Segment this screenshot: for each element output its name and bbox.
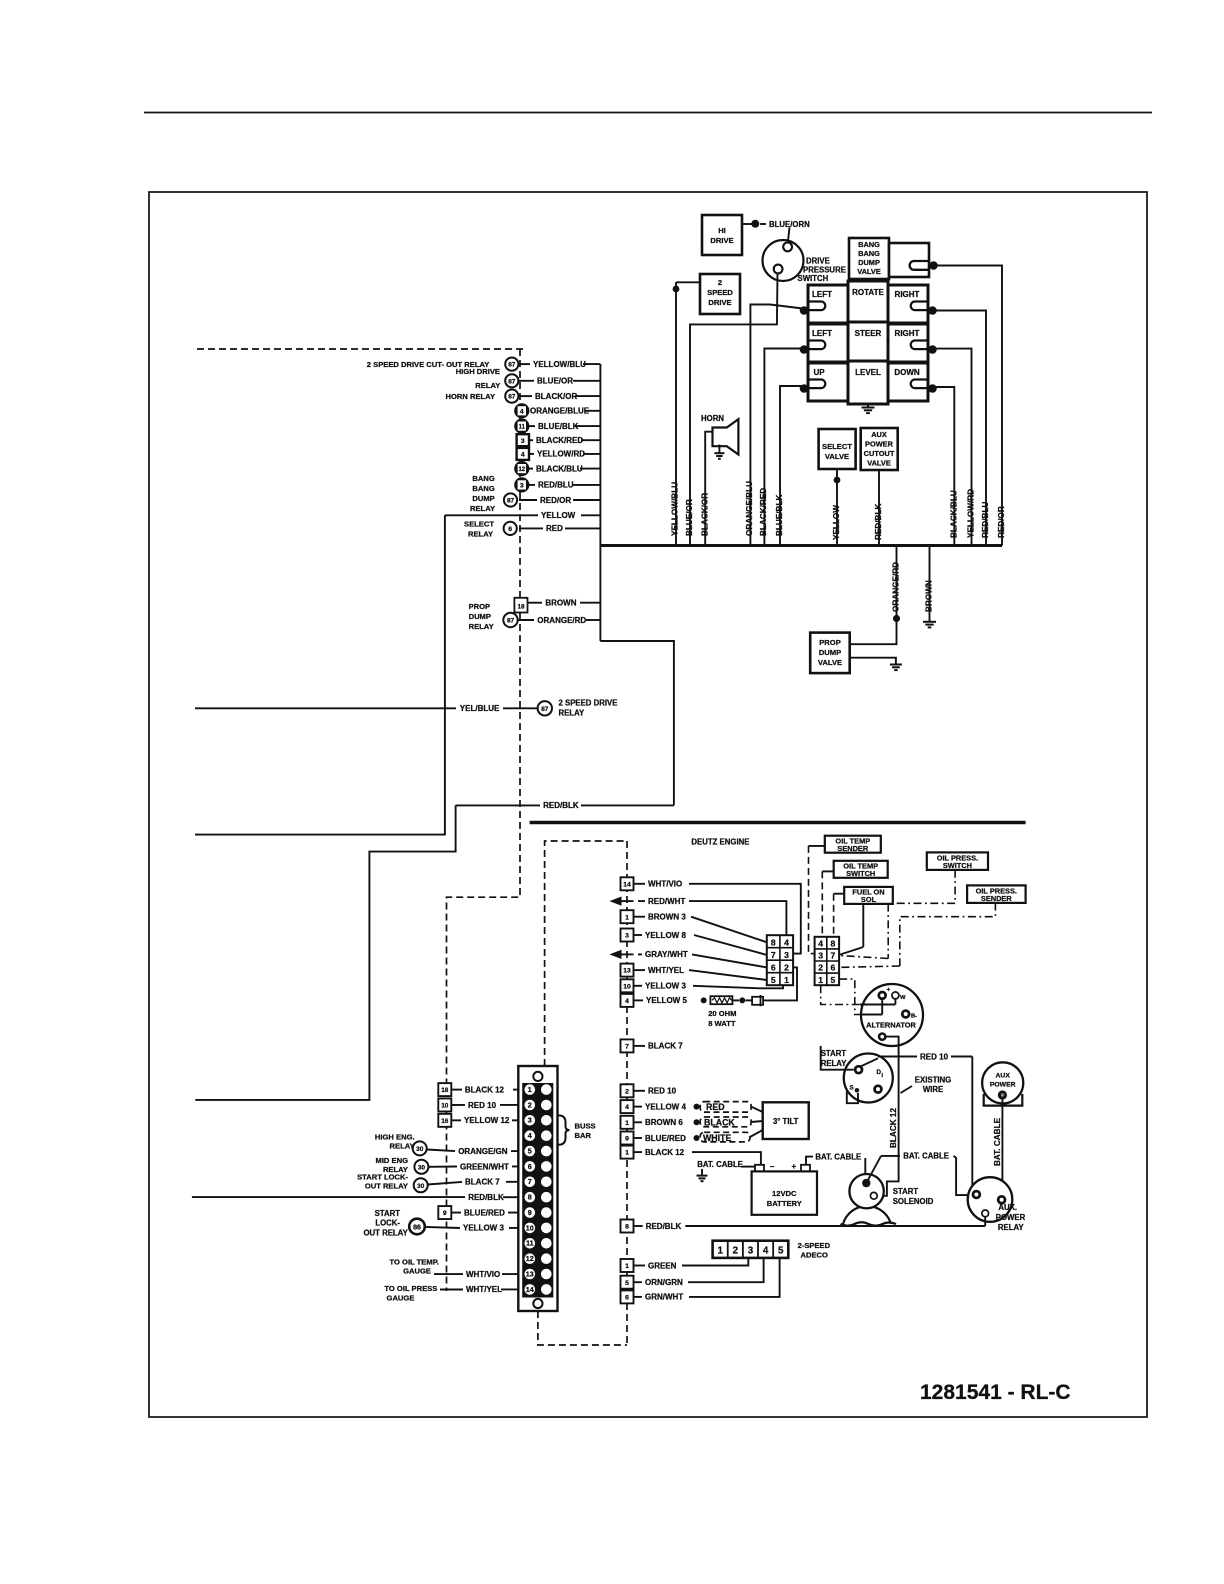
svg-text:3: 3 [521, 438, 525, 445]
drive pressure switch terminal bottom [774, 265, 783, 274]
valve box steer RIGHT [888, 324, 928, 362]
engine connector pin 5 ORN/GRN [621, 1276, 634, 1289]
aux power relay left terminal [972, 1190, 982, 1200]
svg-text:CUTOUT: CUTOUT [864, 449, 895, 458]
svg-text:11: 11 [519, 425, 526, 431]
node dot level down [928, 384, 937, 393]
svg-text:8: 8 [528, 1193, 532, 1202]
svg-text:2: 2 [818, 963, 823, 973]
connector 2-SPEED ADECO [713, 1241, 789, 1258]
trunk wire step to RED/BLK [600, 641, 674, 805]
ground under horn [714, 452, 724, 454]
svg-text:14: 14 [526, 1285, 534, 1294]
svg-text:2: 2 [784, 962, 789, 972]
svg-text:BANG: BANG [858, 240, 880, 249]
svg-text:5: 5 [771, 975, 776, 985]
separator bar [530, 821, 1026, 825]
svg-text:SENDER: SENDER [981, 894, 1012, 903]
svg-text:6: 6 [625, 1295, 629, 1302]
svg-text:BLACK 7: BLACK 7 [648, 1042, 683, 1051]
svg-text:YELLOW/BLU: YELLOW/BLU [671, 482, 680, 536]
svg-text:RELAY: RELAY [821, 1059, 848, 1068]
OIL TEMP SWITCH box [834, 861, 888, 878]
wire RED/BLK from cutout valve [878, 470, 880, 546]
dashed engine border right [626, 841, 628, 1345]
svg-text:RED/BLU: RED/BLU [538, 481, 574, 490]
svg-text:WHT/VIO: WHT/VIO [466, 1270, 500, 1279]
engine connector pin 1 BROWN 6 [621, 1116, 634, 1129]
svg-text:ADECO: ADECO [801, 1251, 829, 1260]
svg-text:5: 5 [831, 975, 836, 985]
dashed tag WHITE [700, 1132, 750, 1142]
svg-text:13: 13 [526, 1269, 534, 1278]
FUEL ON SOL box [844, 887, 893, 904]
svg-text:BLUE/RED: BLUE/RED [645, 1134, 686, 1143]
svg-text:18: 18 [441, 1087, 449, 1094]
wire ORANGE/RD drop [896, 546, 898, 619]
svg-text:ORANGE/BLU: ORANGE/BLU [745, 481, 754, 536]
svg-text:DRIVE: DRIVE [710, 236, 733, 245]
svg-text:4: 4 [818, 939, 823, 949]
svg-text:GRN/WHT: GRN/WHT [645, 1293, 683, 1302]
svg-text:1: 1 [625, 1120, 629, 1127]
label BLUE/ORN [760, 223, 766, 225]
wire steer right to YELLOW/RD [935, 349, 972, 546]
svg-text:RED/BLK: RED/BLK [543, 801, 579, 810]
node dot yellow5 right [739, 997, 745, 1003]
svg-text:WHITE: WHITE [703, 1133, 731, 1143]
wire solenoid diagonal to bat cable [866, 1156, 881, 1183]
svg-text:RELAY: RELAY [998, 1223, 1025, 1232]
PROP DUMP VALVE box [810, 633, 850, 674]
ground battery cable [701, 1169, 703, 1176]
node dot steer left [800, 345, 809, 354]
svg-text:BLACK 7: BLACK 7 [465, 1178, 500, 1187]
junction dot select valve [834, 477, 841, 484]
svg-text:SELECT: SELECT [464, 520, 494, 529]
node dot steer right [928, 345, 937, 354]
wire WHT/YEL to pin 14 [440, 1289, 463, 1291]
wire tag WHITE to tilt box [750, 1130, 763, 1137]
svg-text:RED: RED [706, 1102, 725, 1112]
valve box ROTATE [848, 281, 888, 324]
engine connector pin 3 YELLOW 8 [621, 929, 634, 942]
svg-text:RELAY: RELAY [475, 381, 500, 390]
svg-text:8: 8 [625, 1224, 629, 1231]
wire stepped left leg [195, 805, 455, 1100]
svg-text:BLACK 12: BLACK 12 [465, 1085, 505, 1094]
start solenoid top terminal [862, 1179, 870, 1187]
svg-text:G: G [1000, 1094, 1004, 1100]
wire YELLOW 12 to pin 3 [451, 1119, 461, 1121]
wire RED/BLK to aux relay [685, 1225, 985, 1227]
svg-text:1: 1 [625, 914, 629, 921]
svg-text:30: 30 [416, 1146, 424, 1153]
valve box LEVEL [848, 361, 888, 404]
svg-text:DUMP: DUMP [469, 612, 491, 621]
svg-text:LOCK-: LOCK- [375, 1218, 400, 1227]
svg-text:RED/BLK: RED/BLK [646, 1222, 682, 1231]
wire horn ground stub [718, 445, 720, 454]
svg-text:7: 7 [831, 951, 836, 961]
svg-text:14: 14 [623, 881, 631, 888]
SELECT VALVE box [819, 429, 856, 469]
wire GRN/WHT to adeco [689, 1258, 780, 1297]
AUX POWER CUTOUT VALVE box [861, 428, 898, 470]
svg-text:DUMP: DUMP [819, 648, 841, 657]
3 degree TILT box [763, 1102, 809, 1139]
dashed wire top horizontal [197, 348, 523, 350]
dashed engine border top [545, 841, 627, 1066]
wire ORANGE/BLU [750, 305, 807, 546]
wire bang bang valve to RED/OR [936, 266, 1002, 546]
wire GRAY/WHT diagonal [692, 954, 767, 967]
svg-text:12VDC: 12VDC [772, 1189, 797, 1198]
valve box level DOWN [888, 363, 928, 401]
engine connector pin 14 WHT/VIO [621, 877, 634, 890]
svg-text:5: 5 [778, 1245, 784, 1256]
svg-text:LEFT: LEFT [812, 329, 832, 338]
drive pressure switch circle [763, 240, 804, 281]
svg-text:4: 4 [520, 408, 524, 415]
valve box rotate LEFT [808, 285, 848, 323]
rotate right coil hairpin [911, 302, 928, 311]
wire ORANGE/GN to pin 5 [427, 1150, 455, 1152]
svg-text:BANG: BANG [472, 484, 494, 493]
svg-text:RED: RED [546, 524, 563, 533]
terminal 9 square [438, 1206, 451, 1219]
svg-text:S: S [850, 1085, 854, 1092]
main bus line [600, 544, 1002, 547]
drive pressure switch terminal top [783, 243, 792, 252]
svg-text:BLACK/OR: BLACK/OR [535, 392, 577, 401]
svg-text:10: 10 [623, 983, 631, 990]
wire tag BLACK to tilt box [751, 1121, 763, 1122]
wire BLACK/RED [764, 349, 808, 546]
OIL TEMP SENDER box [825, 836, 881, 853]
relay contact row BLACK/RED [519, 439, 533, 441]
wire ORANGE/RD to prop dump valve [850, 619, 897, 645]
svg-text:BLUE/OR: BLUE/OR [537, 377, 573, 386]
svg-text:RED 10: RED 10 [920, 1052, 949, 1061]
battery terminal minus [755, 1165, 764, 1172]
svg-text:9: 9 [625, 1136, 629, 1143]
diagram border frame [149, 192, 1147, 1417]
svg-text:9: 9 [443, 1210, 447, 1217]
svg-text:1: 1 [528, 1085, 532, 1094]
aux power mount rect [984, 1094, 1023, 1106]
connector grid engine side [767, 935, 793, 985]
svg-text:RIGHT: RIGHT [895, 290, 920, 299]
svg-text:3: 3 [818, 951, 823, 961]
svg-text:12: 12 [518, 467, 525, 473]
svg-text:VALVE: VALVE [818, 658, 842, 667]
svg-text:VALVE: VALVE [825, 452, 849, 461]
svg-text:SENDER: SENDER [837, 844, 868, 853]
battery box 12VDC [752, 1171, 817, 1214]
svg-text:4: 4 [763, 1245, 769, 1256]
svg-text:YELLOW/BLU: YELLOW/BLU [533, 360, 586, 369]
svg-text:RELAY: RELAY [469, 622, 494, 631]
wire RED 10 to aux power relay [860, 1058, 878, 1067]
svg-text:BATTERY: BATTERY [767, 1199, 802, 1208]
svg-text:YELLOW/RD: YELLOW/RD [537, 450, 585, 459]
svg-text:6: 6 [831, 963, 836, 973]
wire BLUE/ORN to pressure switch [788, 228, 790, 243]
OIL PRESS SENDER box [967, 885, 1026, 903]
wire battery plus to bat cable [806, 1157, 813, 1165]
start relay terminal right [873, 1084, 883, 1094]
svg-text:30: 30 [418, 1164, 426, 1171]
pointer existing wire [901, 1086, 913, 1093]
svg-text:RED/BLU: RED/BLU [981, 502, 990, 538]
valve box steer LEFT [808, 324, 848, 362]
terminal 16 square [438, 1114, 451, 1127]
svg-text:DEUTZ ENGINE: DEUTZ ENGINE [691, 838, 749, 847]
svg-text:RED 10: RED 10 [648, 1087, 677, 1096]
svg-text:8: 8 [771, 937, 776, 947]
node dot rotate right [928, 306, 937, 315]
bang bang dump valve coil hairpin [910, 261, 929, 270]
svg-text:YELLOW 5: YELLOW 5 [646, 996, 687, 1005]
wire bat cable to solenoid [864, 1158, 866, 1176]
svg-text:10: 10 [441, 1103, 449, 1110]
start lockout relay circle 30 [414, 1178, 428, 1192]
inline connector yellow5 [746, 999, 753, 1001]
bang bang dump valve label box [849, 238, 889, 279]
steer left coil hairpin [808, 341, 825, 350]
start relay terminal left [854, 1065, 864, 1075]
relay contact row YELLOW [445, 514, 538, 516]
valve box STEER [848, 322, 888, 365]
svg-text:3: 3 [625, 933, 629, 940]
svg-text:DOWN: DOWN [894, 368, 920, 377]
dashed tag BLACK [700, 1117, 751, 1127]
OIL PRESS SWITCH box [927, 852, 988, 870]
dash-dot wire grid to alternator W [821, 985, 860, 1004]
ground prop dump valve [890, 664, 902, 666]
svg-text:BLACK 12: BLACK 12 [645, 1148, 685, 1157]
svg-text:B-: B- [911, 1014, 917, 1020]
dash-dot wire grid to alternator plus [839, 979, 861, 1014]
relay contact row BLUE/BLK [519, 425, 535, 427]
svg-text:2: 2 [625, 1088, 629, 1095]
svg-text:GREEN: GREEN [648, 1261, 677, 1270]
svg-text:ORANGE/RD: ORANGE/RD [537, 616, 586, 625]
dashed wire vertical [447, 349, 521, 1291]
alternator circle [861, 984, 923, 1046]
alternator W terminal [892, 992, 899, 999]
engine connector pin 7 BLACK 7 [621, 1039, 634, 1052]
svg-text:BLACK 12: BLACK 12 [889, 1108, 898, 1148]
svg-text:DUMP: DUMP [472, 494, 494, 503]
svg-text:VALVE: VALVE [867, 459, 891, 468]
wire fuel on sol bottom to grid [862, 904, 864, 947]
svg-text:2: 2 [733, 1245, 739, 1256]
ground BROWN [923, 621, 936, 623]
svg-text:1: 1 [784, 975, 789, 985]
relay contact row RED/OR [519, 499, 537, 501]
dash-dot wire oil press switch to grid [888, 870, 955, 959]
svg-text:BLUE/OR: BLUE/OR [685, 499, 694, 536]
svg-text:13: 13 [623, 968, 631, 975]
svg-text:2 SPEED DRIVE: 2 SPEED DRIVE [559, 699, 618, 708]
valve box rotate RIGHT [888, 285, 928, 323]
wire YELLOW left leg [195, 515, 445, 834]
node dot BLUE/ORN [751, 220, 759, 228]
wire ORANGE/RD row [518, 619, 534, 621]
svg-text:ALTERNATOR: ALTERNATOR [866, 1021, 916, 1030]
svg-text:GREEN/WHT: GREEN/WHT [460, 1162, 509, 1171]
alternator output terminal [878, 1032, 887, 1041]
svg-text:7: 7 [625, 1044, 629, 1051]
svg-text:SWITCH: SWITCH [943, 861, 972, 870]
wire 2 SPEED DRIVE to YELLOW/BLU wire [676, 281, 700, 283]
wire level box ground stub [867, 404, 869, 408]
svg-text:+: + [887, 987, 891, 994]
svg-text:MID ENG: MID ENG [376, 1156, 409, 1165]
wire ORN/GRN to adeco [688, 1258, 764, 1282]
svg-text:BAT. CABLE: BAT. CABLE [815, 1153, 861, 1162]
wire HI DRIVE to node [742, 223, 752, 225]
wire RED/BLK mid row [456, 804, 540, 806]
svg-text:PROP: PROP [819, 638, 841, 647]
svg-text:BROWN: BROWN [545, 599, 576, 608]
svg-text:3: 3 [748, 1245, 754, 1256]
svg-text:BLACK/RED: BLACK/RED [759, 488, 768, 536]
engine connector pin 1 GREEN [621, 1259, 634, 1272]
engine connector pin 2 RED 10 [621, 1084, 634, 1097]
dash-dot wire oil press sender to grid [900, 903, 996, 966]
wire GREEN to adeco [682, 1258, 748, 1266]
svg-text:GAUGE: GAUGE [403, 1267, 431, 1276]
wire YEL/BLUE row [195, 707, 456, 709]
wire rotate right to RED/BLU [935, 311, 986, 546]
svg-text:6: 6 [528, 1162, 532, 1171]
node dot level up [800, 384, 809, 393]
svg-text:START LOCK-: START LOCK- [357, 1172, 408, 1181]
node dot rotate left [800, 306, 809, 315]
svg-text:YELLOW 8: YELLOW 8 [645, 931, 686, 940]
svg-text:BUSS: BUSS [575, 1122, 596, 1131]
engine connector pin 13 WHT/YEL [621, 964, 634, 977]
aux power relay right terminal [997, 1195, 1007, 1205]
wire YELLOW [836, 469, 838, 546]
terminal strip outer [518, 1066, 557, 1311]
relay contact row ORANGE/BLUE [519, 410, 527, 412]
wire GREEN/WHT to pin 6 [428, 1166, 457, 1168]
wire BROWN 3 diagonal [691, 917, 767, 943]
svg-text:BROWN 6: BROWN 6 [645, 1118, 683, 1127]
aux power relay bottom terminal [982, 1210, 989, 1217]
svg-text:HIGH ENG.: HIGH ENG. [375, 1132, 415, 1141]
engine connector pin 10 YELLOW 3 [621, 979, 634, 992]
wire YELLOW 3 to grid [693, 985, 783, 988]
battery terminal plus [801, 1165, 810, 1172]
engine connector pin 1 BROWN 3 [621, 910, 634, 923]
svg-text:87: 87 [508, 394, 516, 401]
start relay S terminal [855, 1088, 860, 1093]
svg-text:4: 4 [528, 1131, 532, 1140]
svg-text:87: 87 [541, 706, 549, 713]
wire RED 10 into start relay [847, 1091, 858, 1103]
svg-text:ORN/GRN: ORN/GRN [645, 1278, 683, 1287]
wire YELLOW 3 to pin 10 [425, 1227, 460, 1228]
wire BLACK 7 into start relay [821, 1046, 854, 1070]
resistor 20 OHM 8 WATT [710, 996, 732, 1004]
svg-text:RELAY: RELAY [470, 504, 495, 513]
wire BROWN row [528, 602, 543, 604]
wire BLUE/RED dot [694, 1135, 700, 1141]
junction dot ORANGE/RD [893, 615, 900, 622]
svg-text:12: 12 [526, 1254, 534, 1263]
svg-text:87: 87 [508, 362, 516, 369]
engine connector pin 1 BLACK 12 [621, 1146, 634, 1159]
wire BLUE/BLK [780, 386, 808, 546]
svg-text:7: 7 [528, 1177, 532, 1186]
svg-text:+: + [792, 1162, 797, 1171]
wire YELLOW/BLU vertical [675, 282, 677, 545]
valve box level UP [808, 363, 848, 401]
svg-text:BLUE/BLK: BLUE/BLK [775, 495, 784, 536]
svg-text:WIRE: WIRE [923, 1085, 943, 1094]
arrow RED/WHT [610, 897, 622, 906]
svg-text:HI: HI [718, 226, 726, 235]
svg-text:RED/BLK: RED/BLK [468, 1193, 504, 1202]
start solenoid circle [849, 1174, 883, 1208]
svg-text:9: 9 [528, 1208, 532, 1217]
wire horn to BLACK/OR [705, 432, 712, 546]
svg-text:ORANGE/BLUE: ORANGE/BLUE [530, 407, 590, 416]
svg-text:POWER: POWER [865, 440, 894, 449]
trunk wire vertical [599, 364, 601, 641]
svg-text:VALVE: VALVE [857, 267, 881, 276]
svg-text:4: 4 [625, 998, 629, 1005]
high eng relay circle 30 [413, 1141, 427, 1155]
wire YELLOW 4 dot [694, 1104, 700, 1110]
wire WHT/VIO to grid [689, 884, 801, 954]
start solenoid right terminal [870, 1192, 877, 1199]
svg-text:BLUE/RED: BLUE/RED [464, 1208, 505, 1217]
junction dot on YELLOW/BLU [673, 286, 680, 293]
horn speaker [713, 419, 739, 454]
svg-text:2: 2 [528, 1100, 532, 1109]
svg-text:W: W [900, 995, 906, 1001]
svg-text:7: 7 [771, 950, 776, 960]
svg-text:WHT/VIO: WHT/VIO [648, 880, 682, 889]
svg-text:YEL/BLUE: YEL/BLUE [460, 704, 500, 713]
svg-text:AUX: AUX [871, 430, 887, 439]
alternator plus terminal [877, 991, 887, 1001]
wire BLACK 12 to battery [692, 1152, 761, 1165]
svg-text:BAR: BAR [575, 1131, 592, 1140]
svg-text:RED/OR: RED/OR [540, 496, 571, 505]
svg-text:4: 4 [784, 937, 789, 947]
svg-text:–: – [770, 1162, 775, 1171]
svg-text:3° TILT: 3° TILT [773, 1117, 799, 1126]
svg-text:BANG: BANG [472, 474, 494, 483]
wire WHT/VIO to pin 13 [434, 1273, 463, 1275]
svg-text:TO OIL PRESS: TO OIL PRESS [384, 1284, 437, 1293]
svg-text:GRAY/WHT: GRAY/WHT [645, 950, 688, 959]
svg-text:SPEED: SPEED [707, 288, 733, 297]
svg-text:SELECT: SELECT [822, 442, 852, 451]
svg-text:87: 87 [507, 618, 515, 625]
prop dump relay terminal 18 [514, 598, 527, 613]
bang bang dump valve coil box [889, 243, 929, 277]
svg-text:RELAY: RELAY [559, 709, 586, 718]
svg-text:BLACK/BLU: BLACK/BLU [536, 464, 583, 473]
